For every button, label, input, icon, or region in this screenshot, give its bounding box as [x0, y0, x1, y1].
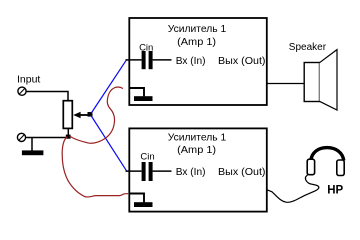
svg-text:Cin: Cin: [140, 151, 154, 162]
speaker LS1: [304, 50, 337, 110]
svg-text:Speaker: Speaker: [289, 42, 327, 53]
svg-text:Усилитель 1: Усилитель 1: [168, 23, 227, 35]
wire U2 output to headphones (cable): [267, 174, 319, 202]
wire wiper to top amp input (blue): [91, 60, 127, 114]
svg-text:Вх (In): Вх (In): [176, 55, 206, 67]
capacitor C1 plates: [142, 51, 153, 69]
wire top amp ground to common ground (dark red): [70, 87, 124, 143]
capacitor C2 plates: [142, 162, 153, 181]
potentiometer wiper arrow: [73, 112, 88, 119]
svg-text:Усилитель 1: Усилитель 1: [168, 132, 227, 144]
svg-text:(Amp 1): (Amp 1): [177, 144, 216, 156]
svg-text:Вых (Out): Вых (Out): [218, 166, 266, 178]
wire input to potentiometer top: [26, 92, 68, 101]
svg-text:Cin: Cin: [139, 42, 153, 53]
wire pot bottom junction to bottom amp ground (dark red): [62, 137, 128, 197]
wire U1 output to speaker: [267, 83, 304, 85]
capacitor C1 right lead: [153, 59, 172, 61]
potentiometer R1 body: [63, 101, 72, 129]
amplifier box U1: [129, 18, 266, 105]
node pot bottom junction: [66, 135, 71, 139]
ground stem: [31, 138, 33, 151]
node wiper junction: [88, 112, 93, 117]
capacitor C2 left lead: [126, 170, 142, 172]
capacitor C1 left lead: [126, 59, 142, 61]
svg-text:HP: HP: [327, 185, 343, 197]
ground U1 internal: [129, 88, 153, 101]
amplifier box U2: [129, 128, 266, 211]
wire ground jack to pot bottom: [26, 137, 67, 139]
svg-text:(Amp 1): (Amp 1): [177, 36, 216, 48]
potentiometer bottom lead: [67, 128, 69, 137]
wire wiper to bottom amp input (blue): [91, 116, 127, 171]
svg-text:Вых (Out): Вых (Out): [218, 55, 266, 67]
svg-text:Input: Input: [17, 73, 40, 85]
svg-text:Вх (In): Вх (In): [176, 166, 206, 178]
ground U2 internal: [129, 194, 153, 208]
ground bar: [22, 150, 44, 155]
capacitor C2 right lead: [153, 170, 172, 172]
ground jack J2: [17, 133, 25, 141]
input jack J1: [18, 87, 26, 95]
headphones HP1: [307, 148, 344, 176]
